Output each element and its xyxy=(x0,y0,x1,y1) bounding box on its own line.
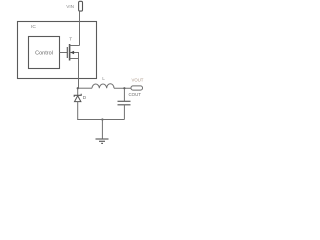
svg-text:T: T xyxy=(69,37,72,42)
svg-text:VOUT: VOUT xyxy=(132,77,144,82)
svg-text:IC: IC xyxy=(31,24,36,30)
svg-text:L: L xyxy=(102,76,105,81)
svg-text:Control: Control xyxy=(35,50,53,56)
svg-text:VIN: VIN xyxy=(66,4,74,9)
svg-text:D: D xyxy=(83,95,87,100)
svg-text:COUT: COUT xyxy=(129,92,142,97)
